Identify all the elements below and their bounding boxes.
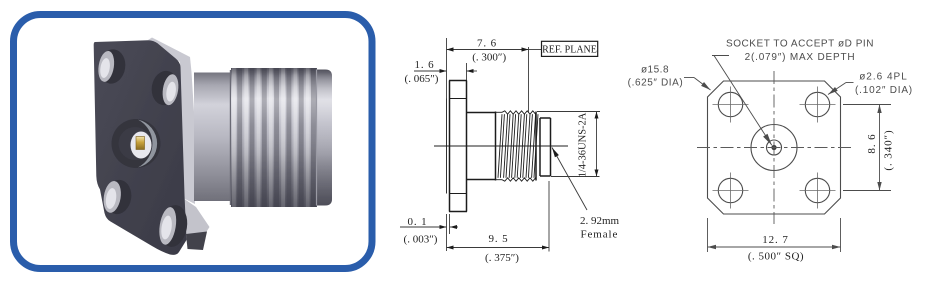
svg-text:(.625″ DIA): (.625″ DIA) [628,78,684,89]
svg-text:(. 300″): (. 300″) [472,52,506,64]
svg-text:(. 375″): (. 375″) [485,252,519,264]
svg-text:9. 5: 9. 5 [488,233,508,245]
svg-text:REF. PLANE: REF. PLANE [542,45,597,56]
svg-text:(. 065″): (. 065″) [405,73,439,85]
svg-text:2. 92mm: 2. 92mm [580,215,620,227]
svg-text:0. 1: 0. 1 [407,216,427,228]
svg-text:ø2.6 4PL: ø2.6 4PL [859,72,908,83]
svg-text:1. 6: 1. 6 [414,59,434,71]
svg-text:ø15.8: ø15.8 [641,65,669,76]
svg-text:1/4-36UNS-2A: 1/4-36UNS-2A [578,112,589,177]
svg-text:SOCKET TO ACCEPT øD PIN: SOCKET TO ACCEPT øD PIN [726,39,874,50]
svg-text:2(.079″) MAX DEPTH: 2(.079″) MAX DEPTH [745,52,856,63]
svg-text:(.102″ DIA): (.102″ DIA) [855,85,913,96]
svg-text:Female: Female [581,229,619,241]
svg-text:12. 7: 12. 7 [762,234,789,246]
svg-text:(. 003″): (. 003″) [404,234,438,246]
svg-text:(. 500″ SQ): (. 500″ SQ) [748,251,804,263]
svg-text:(. 340″): (. 340″) [883,129,895,170]
svg-text:8. 6: 8. 6 [866,133,878,153]
svg-text:7. 6: 7. 6 [477,38,497,50]
